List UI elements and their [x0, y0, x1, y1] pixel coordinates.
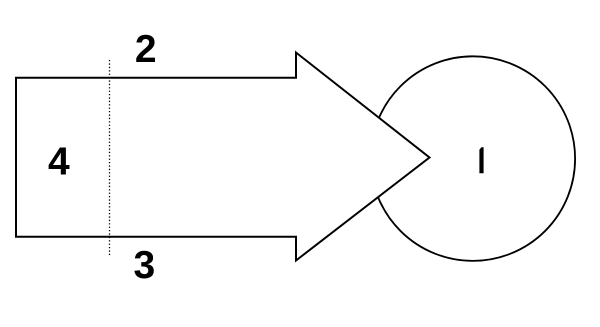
- svg-text:3: 3: [133, 244, 155, 287]
- label 1 (plain bar glyph): [479, 147, 483, 173]
- circle (node 1): [371, 56, 576, 261]
- dotted divider line: [109, 60, 111, 255]
- svg-text:2: 2: [135, 28, 157, 71]
- arrow body (block arrow pointing right): [16, 53, 430, 261]
- svg-text:4: 4: [48, 140, 70, 183]
